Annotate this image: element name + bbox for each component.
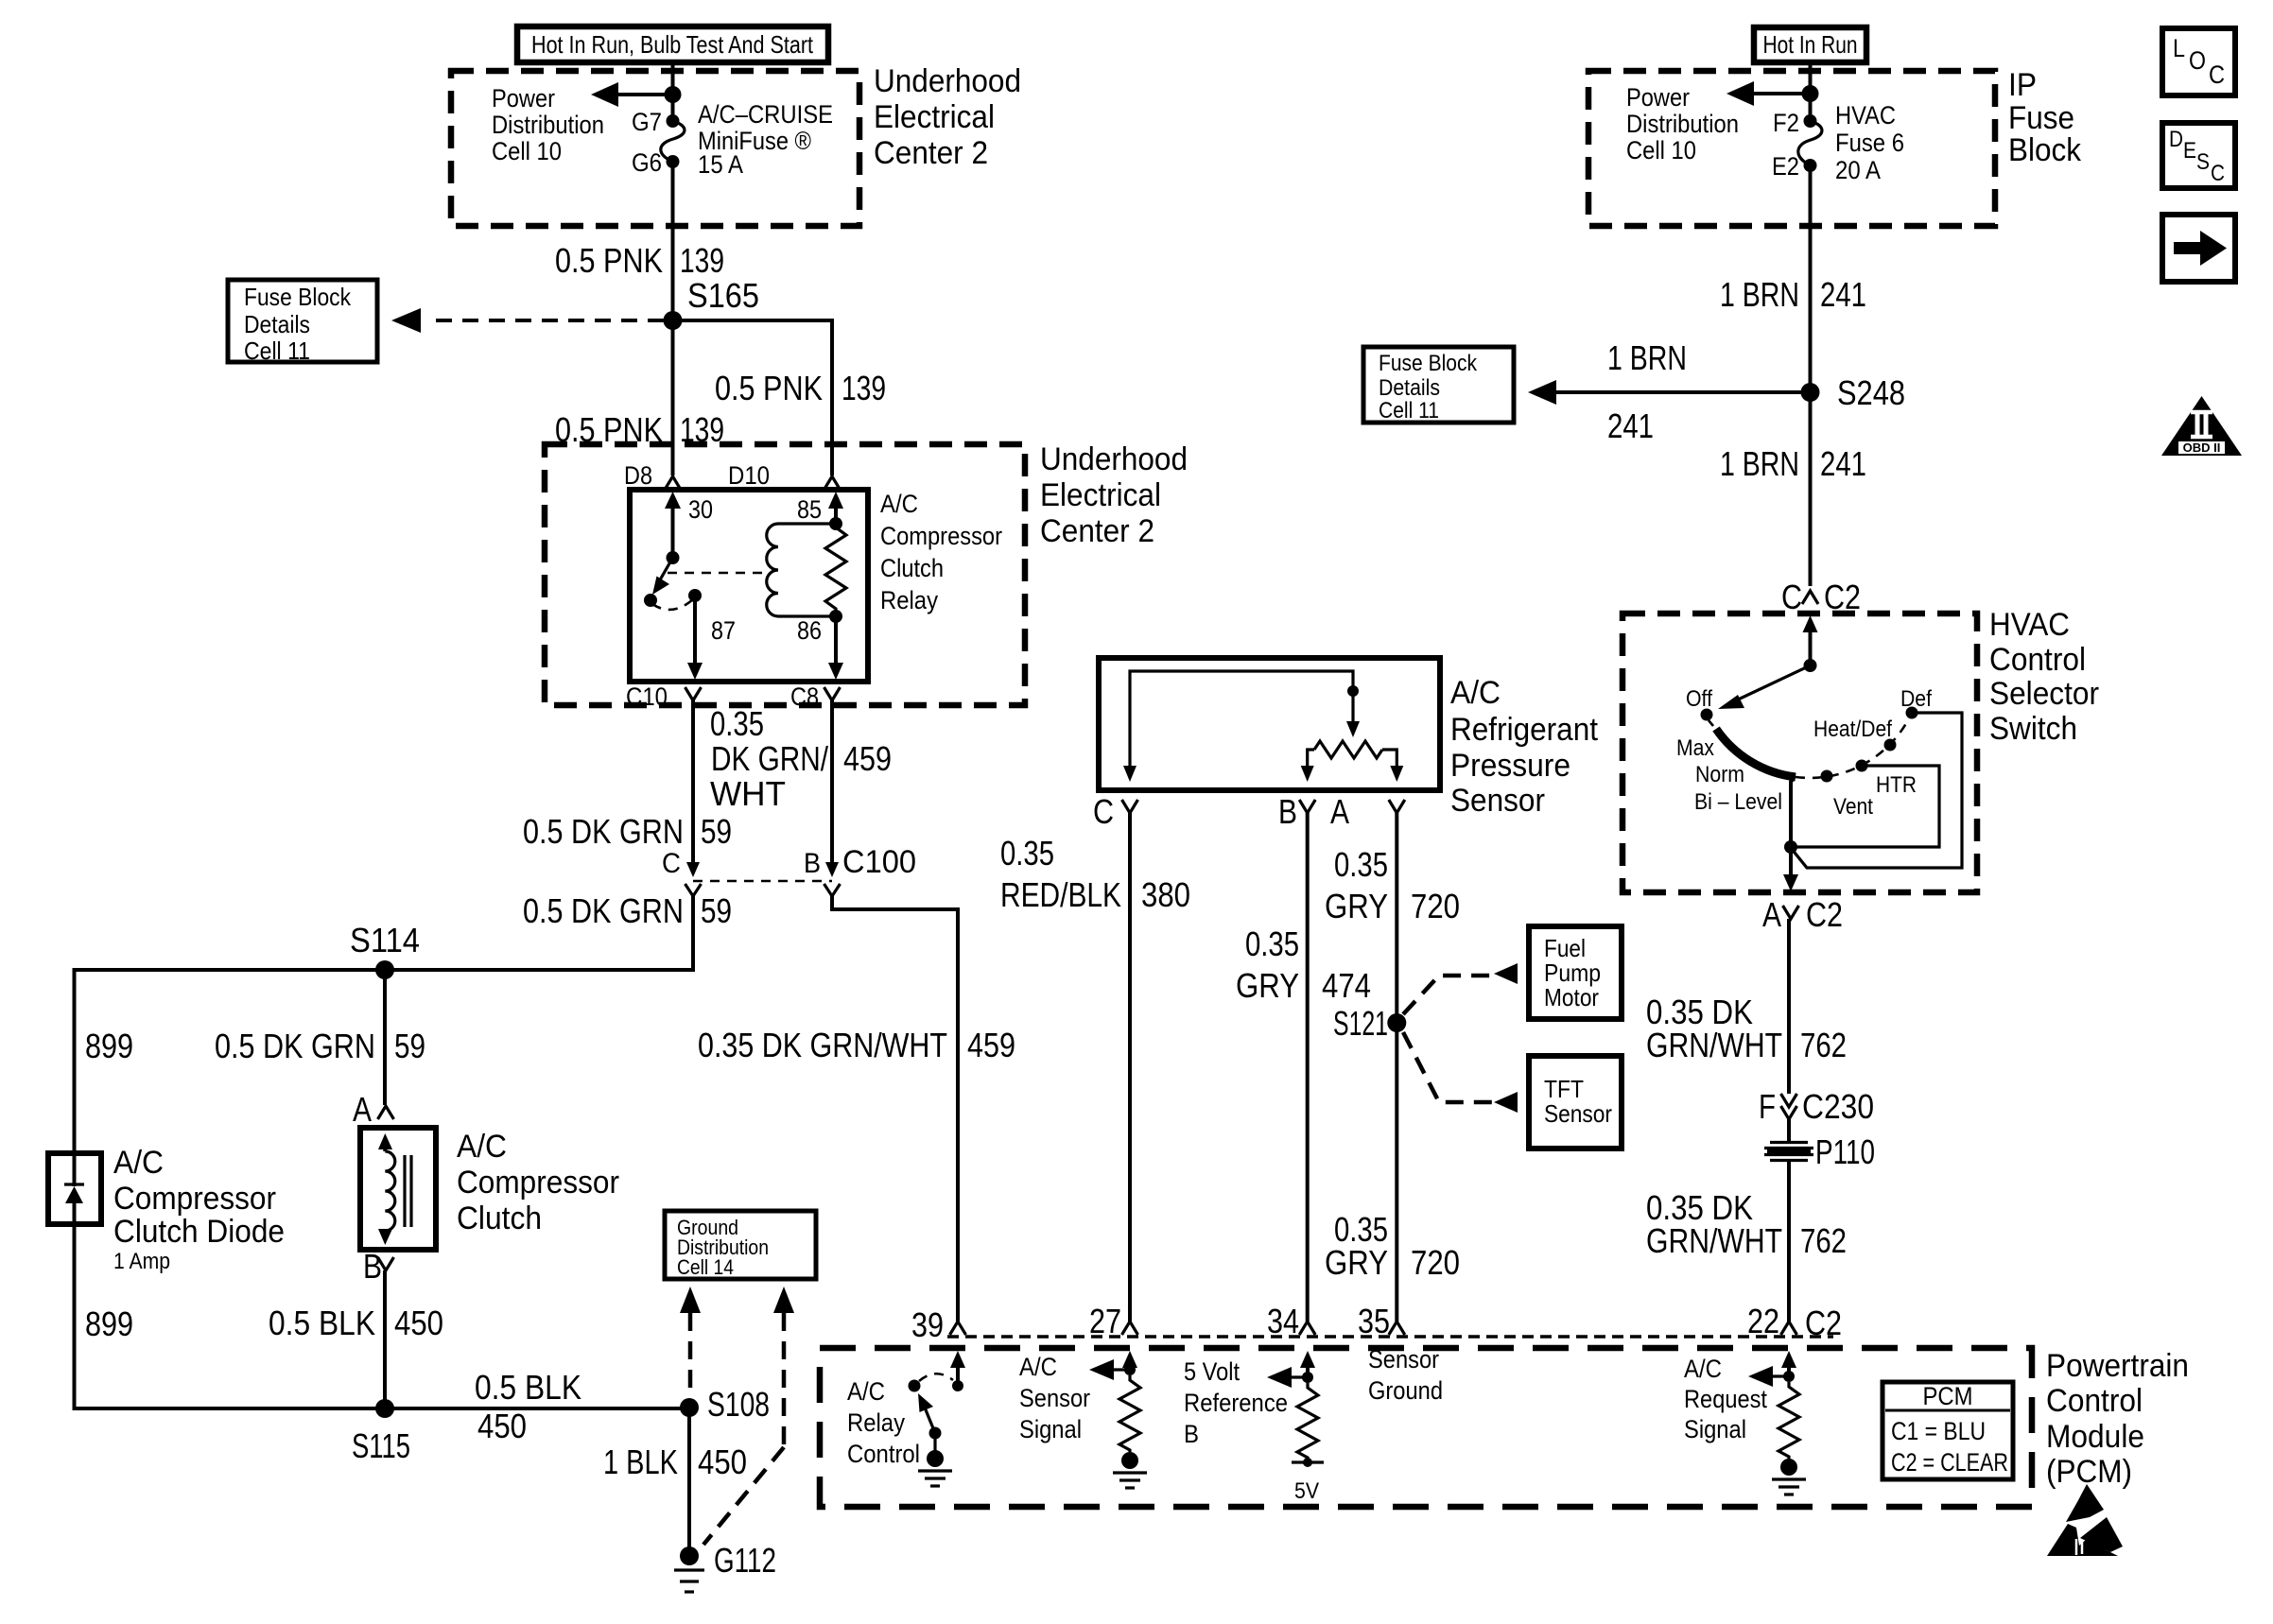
wire: feed into fuse G7	[671, 62, 675, 121]
label: 0.35 DK GRN/WHT 762 (upper)	[1646, 993, 1847, 1064]
label: 899 (lower)	[85, 1304, 133, 1343]
svg-text:Powertrain: Powertrain	[2046, 1348, 2189, 1384]
resistor (pin 27 pull)	[1119, 1375, 1140, 1452]
label: 0.35 RED/BLK 380	[1000, 834, 1190, 914]
svg-text:0.5 DK GRN: 0.5 DK GRN	[215, 1027, 375, 1065]
label: A/C Compressor Clutch	[457, 1129, 619, 1236]
svg-text:Control: Control	[1989, 642, 2086, 678]
svg-text:S108: S108	[707, 1385, 770, 1424]
svg-text:S121: S121	[1333, 1004, 1388, 1043]
svg-text:Cell 10: Cell 10	[1626, 136, 1696, 164]
svg-text:22: 22	[1747, 1302, 1779, 1340]
svg-text:241: 241	[1607, 406, 1654, 445]
label: 0.5 DK GRN 59 (above C100)	[523, 812, 732, 851]
svg-text:GRN/WHT: GRN/WHT	[1646, 1026, 1782, 1064]
svg-text:Max: Max	[1676, 735, 1714, 761]
svg-text:Refrigerant: Refrigerant	[1450, 712, 1599, 748]
wire: S114 down to clutch A	[383, 970, 387, 1105]
svg-text:1 BRN: 1 BRN	[1720, 444, 1799, 483]
wire: C100-C down then left to S114	[385, 896, 693, 970]
dashed box: HVAC Control Selector Switch	[1622, 613, 1977, 892]
label: 899 (upper)	[85, 1027, 133, 1065]
terminal C (sensor)	[1093, 792, 1138, 831]
dashed box: IP Fuse Block	[1588, 71, 1995, 226]
svg-text:474: 474	[1322, 966, 1371, 1005]
pin 22 internal: A/C request signal	[1748, 1351, 1796, 1387]
svg-text:Signal: Signal	[1019, 1415, 1082, 1443]
label: Power Distribution Cell 10 (right)	[1626, 83, 1739, 164]
svg-text:Heat/Def: Heat/Def	[1813, 717, 1892, 742]
svg-text:Distribution: Distribution	[492, 111, 604, 139]
wire: diode down to S115 run (circuit 899)	[75, 1224, 386, 1408]
svg-text:A/C–CRUISE: A/C–CRUISE	[698, 100, 833, 129]
label: 1 BRN 241 (above S248)	[1720, 275, 1866, 314]
legend box: PCM connector colors	[1883, 1382, 2013, 1479]
ref box: Ground Distribution Cell 14	[665, 1211, 816, 1279]
svg-text:59: 59	[394, 1027, 425, 1065]
svg-text:762: 762	[1800, 1221, 1847, 1260]
pin G6	[632, 148, 680, 177]
svg-text:DK GRN/: DK GRN/	[711, 739, 828, 778]
svg-text:G112: G112	[714, 1541, 776, 1580]
svg-text:Control: Control	[847, 1440, 920, 1468]
terminal B (clutch)	[363, 1247, 394, 1286]
ref box: Fuse Block Details Cell 11 (right)	[1363, 347, 1514, 423]
svg-text:C2 = CLEAR: C2 = CLEAR	[1891, 1448, 2008, 1477]
svg-text:27: 27	[1089, 1302, 1121, 1340]
wire: dashed arrow from S165 to Fuse Block Details	[391, 308, 664, 333]
svg-text:C: C	[662, 848, 681, 879]
diode symbol	[64, 1153, 84, 1224]
svg-text:D10: D10	[728, 461, 770, 490]
switch position Heat/Def	[1813, 717, 1897, 752]
dashed ground ref drop to G112	[703, 1287, 794, 1545]
relay switch throw contact / dashed throw arc	[652, 589, 702, 610]
label: Powertrain Control Module (PCM)	[2046, 1348, 2189, 1490]
switch position Def	[1900, 686, 1932, 719]
svg-text:C2: C2	[1806, 895, 1843, 934]
pin 34 internal: 5 volt reference	[1267, 1351, 1315, 1388]
wire: clutch B down to S115	[383, 1270, 387, 1408]
connector C230 pin F	[1759, 1087, 1874, 1126]
svg-text:HVAC: HVAC	[1989, 607, 2070, 643]
wire: sensor A down to PCM pin 35	[1395, 813, 1398, 1322]
connector C100 pin B	[804, 844, 916, 896]
svg-text:G6: G6	[632, 148, 662, 177]
wire: S114 left to diode branch (circuit 899)	[75, 970, 386, 1153]
pin E2	[1772, 152, 1817, 181]
svg-text:39: 39	[911, 1305, 944, 1344]
label: A/C Sensor Signal	[1019, 1353, 1090, 1443]
svg-text:A: A	[353, 1090, 372, 1129]
svg-text:A/C: A/C	[880, 490, 918, 518]
svg-text:Pressure: Pressure	[1450, 748, 1570, 784]
svg-text:GRY: GRY	[1325, 1243, 1388, 1282]
wire: S165 right branch over and down to D10	[673, 320, 833, 475]
A/C relay control switch	[909, 1373, 954, 1439]
svg-text:GRY: GRY	[1236, 966, 1299, 1005]
connector C100 pin C	[662, 848, 702, 896]
terminal C C2 (switch input)	[1781, 578, 1861, 616]
wire: sensor C down to PCM pin 27	[1128, 813, 1132, 1322]
connector C100 dashed mating line	[693, 880, 832, 883]
pin 39	[911, 1305, 966, 1344]
svg-text:450: 450	[698, 1443, 747, 1481]
switch HTR loop wire	[1791, 766, 1939, 847]
svg-text:0.5 DK GRN: 0.5 DK GRN	[523, 812, 684, 851]
splice S165	[664, 276, 760, 330]
ground (A/C relay control)	[918, 1433, 952, 1486]
svg-text:Reference: Reference	[1184, 1389, 1288, 1417]
svg-text:35: 35	[1358, 1302, 1390, 1340]
svg-text:899: 899	[85, 1027, 133, 1065]
pin 35	[1358, 1302, 1405, 1340]
ground (pin 22)	[1772, 1459, 1806, 1494]
svg-text:C: C	[1093, 792, 1114, 831]
wire: S108 down to G112 (1 BLK 450)	[687, 1408, 691, 1556]
label: A/C-CRUISE MiniFuse 15 A	[698, 100, 833, 179]
svg-text:Switch: Switch	[1989, 711, 2077, 747]
switch common output	[1783, 778, 1798, 891]
svg-text:Def: Def	[1900, 686, 1932, 712]
svg-text:F2: F2	[1773, 109, 1799, 137]
svg-text:85: 85	[797, 495, 822, 524]
label: 0.35 DK GRN/WHT 762 (lower)	[1646, 1188, 1847, 1260]
svg-text:C10: C10	[626, 682, 668, 711]
svg-text:1 BLK: 1 BLK	[603, 1443, 678, 1481]
pin G7	[632, 108, 680, 136]
svg-text:D: D	[2169, 127, 2183, 152]
svg-text:Compressor: Compressor	[880, 522, 1002, 550]
svg-text:C2: C2	[1805, 1304, 1842, 1342]
svg-text:Fuse 6: Fuse 6	[1835, 129, 1904, 157]
svg-text:Cell 14: Cell 14	[677, 1255, 734, 1279]
wire: S248 arrow to Fuse Block Details	[1528, 338, 1811, 445]
svg-text:A/C: A/C	[1019, 1353, 1057, 1381]
svg-text:S: S	[2196, 149, 2210, 175]
svg-text:1 Amp: 1 Amp	[113, 1249, 170, 1274]
label: 0.5 BLK 450 (S115-S108)	[475, 1368, 581, 1445]
label: A/C Compressor Clutch Diode 1 Amp	[113, 1145, 285, 1274]
dashed box: Underhood Electrical Center 2 (lower)	[545, 444, 1025, 705]
svg-text:87: 87	[711, 616, 736, 645]
feed box: Hot In Run	[1754, 27, 1866, 62]
ground G112	[674, 1541, 776, 1592]
svg-text:Cell 11: Cell 11	[244, 337, 310, 365]
svg-text:34: 34	[1267, 1302, 1299, 1340]
pin 39 internal arrow	[950, 1351, 965, 1391]
svg-text:899: 899	[85, 1304, 133, 1343]
svg-text:Cell 11: Cell 11	[1379, 398, 1439, 423]
label: 0.5 PNK 139 (right branch)	[715, 369, 886, 407]
fuse F: A/C-CRUISE MiniFuse 15A	[661, 121, 685, 162]
svg-text:HVAC: HVAC	[1835, 101, 1896, 130]
svg-text:241: 241	[1820, 275, 1866, 314]
svg-text:Request: Request	[1684, 1385, 1767, 1413]
svg-text:Power: Power	[1626, 83, 1690, 112]
svg-text:E2: E2	[1772, 152, 1799, 181]
svg-text:30: 30	[688, 495, 713, 524]
svg-text:0.5 PNK: 0.5 PNK	[555, 410, 663, 449]
relay switch arm	[644, 551, 680, 607]
label: 1 BRN 241 (below S248)	[1720, 444, 1866, 483]
svg-text:Ground: Ground	[1368, 1376, 1443, 1405]
sensor potentiometer element	[1301, 741, 1404, 782]
svg-text:Hot In Run: Hot In Run	[1763, 30, 1858, 59]
wire: C100-B down, over and down to PCM pin 39	[832, 896, 958, 1322]
svg-text:C230: C230	[1802, 1087, 1874, 1126]
svg-text:GRN/WHT: GRN/WHT	[1646, 1221, 1782, 1260]
svg-text:C: C	[2209, 60, 2225, 89]
svg-text:5V: 5V	[1294, 1478, 1319, 1504]
label: 0.35 GRY 474	[1236, 924, 1371, 1005]
clutch coil symbol	[378, 1133, 395, 1245]
svg-text:0.5 PNK: 0.5 PNK	[555, 241, 663, 280]
relay pin 85	[797, 492, 843, 530]
wire: S165 down to D8	[671, 320, 675, 475]
svg-text:Clutch: Clutch	[457, 1201, 542, 1236]
splice S121	[1333, 1004, 1406, 1043]
svg-text:O: O	[2189, 46, 2206, 75]
relay pin 30	[665, 492, 713, 558]
label: Underhood Electrical Center 2 (upper)	[874, 63, 1021, 171]
terminal D10	[728, 461, 841, 490]
svg-text:0.5 DK GRN: 0.5 DK GRN	[523, 891, 684, 930]
pin 27	[1089, 1302, 1138, 1340]
clutch plates symbol	[405, 1155, 411, 1227]
splice S248	[1801, 373, 1906, 412]
label: A/C Relay Control	[847, 1377, 920, 1468]
wire: C10 down to C100-C	[691, 700, 695, 870]
terminal A (sensor)	[1330, 792, 1405, 831]
svg-text:Compressor: Compressor	[113, 1181, 276, 1217]
resistor (pin 34)	[1297, 1383, 1318, 1461]
wire: E2 down to S248	[1809, 165, 1813, 392]
pin F2	[1773, 109, 1817, 137]
label: 0.35 GRY 720 (upper)	[1325, 845, 1460, 925]
svg-text:B: B	[804, 848, 821, 879]
svg-text:Sensor: Sensor	[1019, 1384, 1090, 1412]
svg-text:Signal: Signal	[1684, 1415, 1746, 1443]
svg-text:0.35: 0.35	[1000, 834, 1054, 872]
svg-text:S115: S115	[352, 1426, 410, 1465]
svg-text:A/C: A/C	[457, 1129, 507, 1165]
svg-text:A: A	[1762, 895, 1781, 934]
icon: OBD II triangle	[2161, 396, 2242, 456]
svg-text:450: 450	[394, 1304, 443, 1342]
label: HVAC Control Selector Switch	[1989, 607, 2099, 747]
label: HVAC Fuse 6 20 A	[1835, 101, 1904, 184]
label: 0.5 DK GRN 59 (to clutch)	[215, 1027, 425, 1065]
svg-text:HTR: HTR	[1876, 772, 1917, 798]
wire: feed into fuse F2	[1809, 62, 1813, 121]
connector interface dotted line	[947, 1335, 1833, 1339]
splice S115	[352, 1399, 410, 1465]
label: IP Fuse Block	[2008, 67, 2082, 168]
terminal D8	[624, 461, 681, 490]
svg-text:0.35: 0.35	[1245, 924, 1299, 963]
svg-text:139: 139	[842, 369, 886, 407]
switch contact arc (dashed Vent-Def)	[1796, 713, 1912, 778]
svg-text:Center 2: Center 2	[1040, 513, 1154, 549]
svg-text:B: B	[1184, 1420, 1199, 1448]
svg-text:Norm: Norm	[1695, 762, 1744, 787]
svg-text:A/C: A/C	[113, 1145, 164, 1181]
svg-text:762: 762	[1800, 1026, 1847, 1064]
svg-text:A: A	[1330, 792, 1349, 831]
svg-text:Motor: Motor	[1544, 983, 1599, 1011]
svg-text:Sensor: Sensor	[1544, 1099, 1612, 1128]
svg-text:Clutch: Clutch	[880, 554, 944, 582]
ground (pin 27)	[1113, 1452, 1147, 1488]
svg-text:Hot In Run, Bulb Test And Star: Hot In Run, Bulb Test And Start	[531, 30, 814, 59]
svg-text:59: 59	[701, 891, 732, 930]
svg-text:20 A: 20 A	[1835, 156, 1881, 184]
svg-text:5 Volt: 5 Volt	[1184, 1357, 1240, 1386]
svg-text:Bi – Level: Bi – Level	[1694, 789, 1782, 815]
label: Power Distribution Cell 10 (left)	[492, 84, 604, 165]
svg-text:Vent: Vent	[1833, 794, 1873, 820]
switch input arrow / rotor	[1718, 615, 1818, 709]
svg-text:C: C	[2211, 161, 2225, 186]
svg-text:1 BRN: 1 BRN	[1607, 338, 1687, 377]
svg-text:OBD II: OBD II	[2183, 441, 2221, 455]
svg-text:139: 139	[680, 241, 724, 280]
dashed box: Underhood Electrical Center 2 (upper)	[451, 71, 859, 226]
wire: switch A down to connector C230	[1787, 919, 1791, 1094]
svg-text:Module: Module	[2046, 1419, 2144, 1455]
svg-text:F: F	[1759, 1087, 1776, 1126]
5V supply node	[1292, 1458, 1324, 1504]
svg-text:459: 459	[967, 1026, 1015, 1064]
label: Sensor Ground	[1368, 1345, 1443, 1405]
svg-text:Block: Block	[2008, 132, 2082, 168]
wire: arrow to Power Distribution (IP)	[1726, 81, 1811, 106]
svg-text:15 A: 15 A	[698, 150, 743, 179]
label: 0.35 DK GRN/WHT 459 (to PCM)	[698, 1026, 1015, 1064]
sensor wiper arrow	[1346, 691, 1360, 737]
svg-text:C100: C100	[842, 844, 916, 880]
wire: P110 down to PCM pin 22	[1787, 1161, 1791, 1322]
svg-text:Sensor: Sensor	[1450, 783, 1545, 819]
icon: ESD sensitive symbol	[2047, 1484, 2123, 1556]
diode box: A/C Compressor Clutch Diode	[48, 1153, 101, 1224]
icon: DESC box	[2162, 123, 2235, 188]
switch position Off	[1686, 686, 1713, 721]
svg-text:Distribution: Distribution	[1626, 110, 1739, 138]
icon: forward arrow box	[2162, 215, 2235, 282]
svg-text:Compressor: Compressor	[457, 1165, 619, 1201]
sensor box: A/C Refrigerant Pressure Sensor	[1099, 658, 1440, 790]
relay box: A/C Compressor Clutch Relay	[630, 490, 868, 682]
svg-text:B: B	[1278, 792, 1297, 831]
svg-text:S248: S248	[1837, 373, 1905, 412]
node: power distribution tap (IP)	[1802, 85, 1819, 102]
dashed ref to Fuel Pump Motor	[1403, 963, 1518, 1014]
svg-text:IP: IP	[2008, 67, 2037, 103]
switch position HTR	[1856, 760, 1917, 799]
terminal C8	[790, 682, 841, 711]
svg-text:Power: Power	[492, 84, 555, 112]
terminal C10	[626, 682, 702, 711]
svg-text:P110: P110	[1815, 1132, 1875, 1171]
svg-text:C8: C8	[790, 682, 819, 711]
feed box: Hot In Run, Bulb Test And Start	[517, 26, 828, 62]
splice S114	[350, 921, 420, 979]
terminal B (sensor)	[1278, 792, 1315, 831]
svg-text:241: 241	[1820, 444, 1866, 483]
svg-text:Relay: Relay	[880, 586, 938, 614]
resistor (pin 22)	[1778, 1382, 1799, 1459]
svg-text:0.35: 0.35	[710, 704, 764, 743]
svg-text:86: 86	[797, 616, 822, 645]
svg-text:Center 2: Center 2	[874, 135, 988, 171]
icon: LOC box	[2162, 28, 2235, 95]
wire: G6 down to S165	[671, 162, 675, 320]
component box: A/C Compressor Clutch	[360, 1128, 436, 1250]
svg-text:Fuse Block: Fuse Block	[1379, 351, 1478, 376]
svg-text:RED/BLK: RED/BLK	[1000, 875, 1121, 914]
dashed ground ref drop to S108	[680, 1287, 701, 1397]
switch Def loop wire	[1791, 713, 1962, 868]
label: 0.5 PNK 139 (above D8)	[555, 410, 724, 449]
svg-text:Underhood: Underhood	[1040, 441, 1188, 477]
svg-text:Clutch Diode: Clutch Diode	[113, 1214, 285, 1250]
svg-text:B: B	[363, 1247, 382, 1286]
label: 0.35 GRY 720 (lower)	[1325, 1210, 1460, 1282]
grommet P110	[1764, 1132, 1875, 1171]
fuse: HVAC Fuse 6 20 A	[1798, 121, 1822, 165]
sensor internal feed (pin C)	[1123, 671, 1359, 782]
relay coil suppression resistor	[825, 524, 846, 616]
svg-text:380: 380	[1141, 875, 1190, 914]
wire: C8 down to C100-B	[830, 700, 834, 870]
svg-text:59: 59	[701, 812, 732, 851]
svg-text:A/C: A/C	[1684, 1355, 1722, 1383]
svg-text:S165: S165	[687, 276, 759, 315]
wire: sensor B down to PCM pin 34	[1306, 813, 1310, 1322]
svg-text:0.5 BLK: 0.5 BLK	[269, 1304, 375, 1342]
label: 0.5 DK GRN 59 (below C100)	[523, 891, 732, 930]
dashed box: PCM	[820, 1348, 2032, 1507]
svg-text:Underhood: Underhood	[874, 63, 1021, 99]
svg-text:A/C: A/C	[1450, 675, 1501, 711]
svg-text:E: E	[2183, 138, 2196, 164]
relay pin 86	[797, 610, 843, 680]
ref box: Fuel Pump Motor	[1529, 926, 1622, 1019]
label: Underhood Electrical Center 2 (lower)	[1040, 441, 1188, 549]
svg-text:Electrical: Electrical	[874, 99, 995, 135]
wire: C230 to P110	[1787, 1119, 1791, 1142]
pin 22	[1747, 1302, 1842, 1342]
svg-text:720: 720	[1411, 1243, 1460, 1282]
svg-text:PCM: PCM	[1923, 1382, 1973, 1410]
label: 1 BLK 450	[603, 1443, 747, 1481]
ref box: TFT Sensor	[1529, 1056, 1622, 1149]
svg-text:D8: D8	[624, 461, 652, 490]
svg-text:Sensor: Sensor	[1368, 1345, 1439, 1373]
svg-text:G7: G7	[632, 108, 662, 136]
svg-text:Details: Details	[1379, 375, 1440, 401]
label: Max Norm Bi-Level	[1676, 735, 1782, 815]
svg-text:L: L	[2173, 34, 2185, 62]
label: 5 Volt Reference B	[1184, 1357, 1288, 1448]
terminal A C2 (switch output)	[1762, 895, 1843, 934]
relay pin 87	[687, 596, 736, 680]
svg-text:(PCM): (PCM)	[2046, 1454, 2132, 1490]
switch position Vent	[1821, 770, 1874, 821]
node: power distribution tap	[665, 86, 682, 103]
